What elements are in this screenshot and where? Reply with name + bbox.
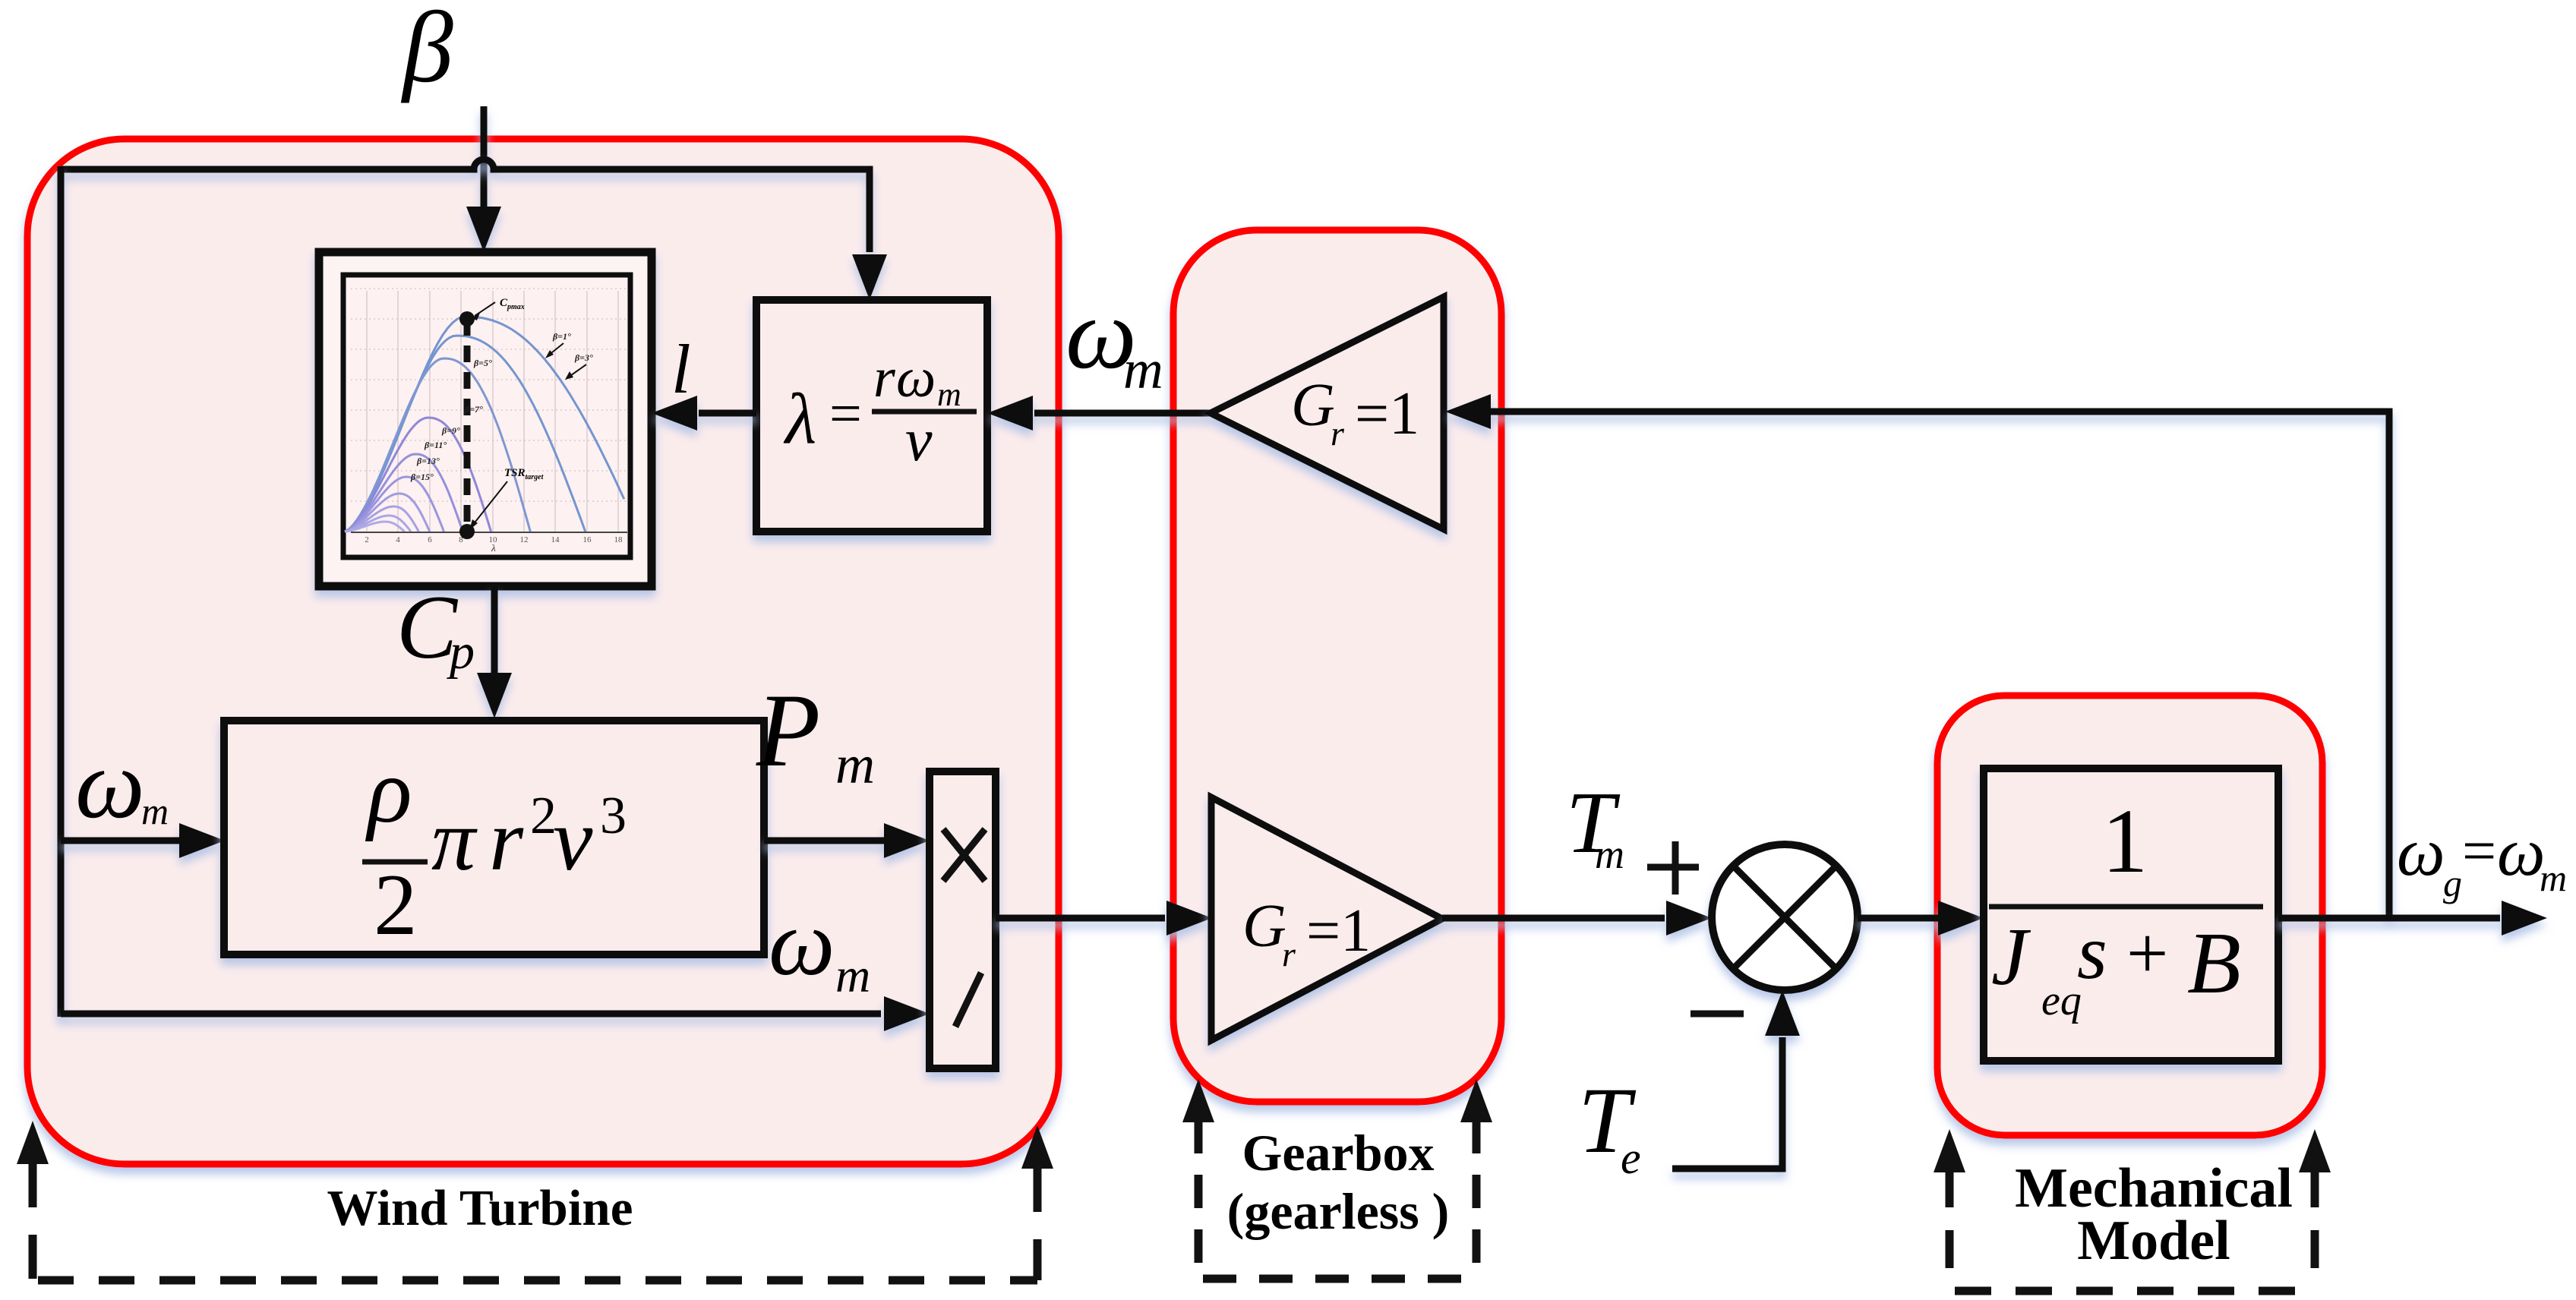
summing junction (circle with X) [1712, 844, 1858, 990]
svg-text:ω: ω [896, 347, 936, 409]
wire: Cp from plot box down into formula block [477, 586, 512, 718]
svg-text:12: 12 [520, 535, 529, 544]
svg-text:ω: ω [2497, 815, 2546, 890]
svg-text:=1: =1 [1306, 898, 1371, 964]
small curve labels [410, 331, 593, 482]
svg-text:m: m [1595, 831, 1624, 877]
svg-text:λ: λ [491, 542, 496, 554]
svg-text:G: G [1242, 893, 1286, 960]
label Cp (plot output) [396, 576, 475, 680]
svg-text:14: 14 [551, 535, 560, 544]
svg-text:Wind Turbine: Wind Turbine [327, 1180, 633, 1236]
svg-text:Model: Model [2077, 1210, 2230, 1272]
svg-text:G: G [1291, 372, 1335, 439]
svg-text:β=7°: β=7° [464, 404, 483, 415]
svg-text:r: r [873, 347, 896, 409]
svg-text:p: p [447, 624, 475, 680]
label Te [1578, 1068, 1641, 1183]
region box: Gearbox (red rounded, pink fill) [1173, 230, 1501, 1102]
svg-text:6: 6 [428, 535, 432, 544]
svg-text:β=3°: β=3° [574, 352, 593, 363]
svg-text:ω: ω [75, 730, 145, 839]
svg-text:β: β [400, 0, 453, 103]
label omega_m (top, on gearbox output wire) [1065, 277, 1163, 400]
dashed TSR target line with end dots [464, 319, 471, 532]
svg-text:r: r [1331, 414, 1345, 453]
svg-text:v: v [553, 790, 593, 889]
svg-text:g: g [2443, 862, 2462, 904]
svg-text:π: π [431, 792, 478, 889]
svg-text:18: 18 [614, 535, 623, 544]
wire: Pm from formula block into multiplier (x) [764, 823, 930, 858]
svg-text:P: P [756, 672, 820, 788]
dashed bracket: Gearbox [1182, 1079, 1492, 1279]
wire: lower omega_m from left rail to divider input [61, 996, 930, 1031]
label omega_m (into formula block) [75, 730, 169, 839]
wire: beta input vertical with arrow into Cp plot box [466, 106, 501, 252]
svg-text:ω: ω [769, 891, 835, 995]
svg-text:=: = [829, 382, 862, 446]
svg-text:β=15°: β=15° [410, 472, 434, 482]
label: Gearbox (gearless) [1227, 1124, 1450, 1240]
svg-text:r: r [1282, 935, 1296, 973]
wire: feedback omega from output up and across to gearbox triangle [1445, 394, 2389, 918]
svg-text:λ: λ [783, 379, 816, 459]
svg-text:ω: ω [2397, 815, 2445, 890]
svg-text:m: m [835, 948, 870, 1002]
Cp plot interior: grid, curves, dashed TSR line, annotations [345, 289, 627, 554]
svg-text:1: 1 [2102, 790, 2148, 892]
region box: Mechanical Model (red rounded, pink fill) [1937, 696, 2322, 1135]
svg-text:β=1°: β=1° [552, 331, 571, 342]
block: Cp(lambda,beta) plot, outer frame [319, 252, 652, 586]
svg-text:m: m [141, 790, 169, 832]
wire: left rail vertical [58, 166, 65, 1017]
svg-text:2: 2 [374, 857, 418, 953]
svg-text:+: + [2126, 913, 2168, 995]
svg-text:r: r [489, 792, 524, 889]
dashed bracket: Mechanical Model [1934, 1129, 2331, 1291]
plus sign at summing junction [1647, 841, 1699, 895]
svg-text:s: s [2077, 910, 2107, 996]
svg-text:l: l [671, 330, 691, 408]
svg-text:J: J [1991, 912, 2031, 1002]
svg-text:2: 2 [365, 535, 369, 544]
svg-text:m: m [1123, 339, 1163, 400]
svg-text:16: 16 [583, 535, 592, 544]
gain triangle Gr=1 (bottom, pointing right) [1211, 797, 1442, 1040]
svg-text:β=13°: β=13° [416, 456, 440, 466]
wire: top horizontal (left rail to lambda block) with hop over beta wire [61, 159, 887, 300]
svg-text:3: 3 [600, 787, 627, 845]
wire: omega_m from gearbox triangle tip into lambda block right side [987, 396, 1211, 431]
wire: summing junction to mechanical model block [1858, 901, 1984, 936]
svg-text:=1: =1 [1355, 380, 1419, 447]
block: 1/(Jeq s + B) [1984, 768, 2278, 1061]
block: lambda = r*omega_m / v [756, 300, 987, 532]
label omega_g = omega_m [2397, 815, 2567, 904]
svg-text:β=9°: β=9° [441, 425, 460, 436]
block: multiply/divide (Pm x / omega_m) [930, 771, 996, 1068]
wire: omega_m arrow from left rail into power formula block [61, 823, 225, 858]
svg-text:Gearbox: Gearbox [1242, 1124, 1434, 1182]
label Tm [1566, 775, 1624, 877]
wire: output omega_g with arrow [2278, 901, 2547, 936]
block: (rho/2) pi r^2 v^3 [224, 721, 764, 954]
wire: lambda block output to plot box (arrow left) [652, 396, 756, 431]
label Pm (power output) [756, 672, 875, 795]
minus sign at summing junction [1690, 1011, 1744, 1018]
wire: torque Tm from multiplier to gearbox gain triangle [996, 901, 1212, 936]
svg-text:=: = [2462, 818, 2496, 885]
svg-text:β=11°: β=11° [424, 440, 447, 450]
svg-text:m: m [835, 734, 875, 795]
svg-text:ρ: ρ [365, 740, 412, 842]
wire: Te up into summing junction (negative input) [1672, 990, 1800, 1169]
svg-text:e: e [1621, 1133, 1641, 1183]
svg-text:β=5°: β=5° [473, 358, 492, 368]
dashed bracket: Wind Turbine [17, 1121, 1053, 1280]
svg-text:(gearless ): (gearless ) [1227, 1182, 1450, 1240]
label beta (pitch angle input) [400, 0, 453, 103]
wire: Tm from triangle to summing junction [1442, 901, 1712, 936]
label: Mechanical Model [2015, 1157, 2293, 1272]
label: Wind Turbine [327, 1180, 633, 1236]
label omega_m (into divider) [769, 891, 870, 1002]
label l (lambda) on wire from lambda block to plot [671, 330, 691, 408]
svg-text:m: m [2540, 857, 2567, 899]
svg-text:4: 4 [396, 535, 400, 544]
region box: Wind Turbine (red rounded, pink fill) [27, 139, 1059, 1164]
gain triangle Gr=1 (top, pointing left) [1211, 297, 1444, 529]
svg-text:m: m [937, 376, 961, 413]
svg-text:B: B [2187, 915, 2241, 1012]
svg-text:v: v [905, 407, 933, 474]
svg-text:eq: eq [2041, 977, 2082, 1024]
